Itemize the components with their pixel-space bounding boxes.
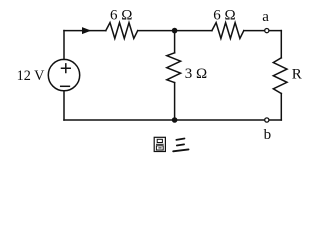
svg-text:b: b <box>264 127 272 143</box>
svg-text:a: a <box>262 9 269 25</box>
svg-text:6 Ω: 6 Ω <box>110 8 132 24</box>
svg-text:R: R <box>292 67 302 83</box>
svg-text:3 Ω: 3 Ω <box>185 66 207 82</box>
svg-text:6 Ω: 6 Ω <box>213 8 235 24</box>
svg-text:12 V: 12 V <box>17 68 45 84</box>
